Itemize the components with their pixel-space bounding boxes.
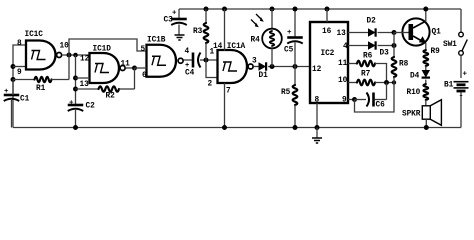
R4 label xyxy=(251,37,261,45)
gate IC1A xyxy=(218,50,254,83)
svg-text:R9: R9 xyxy=(431,48,441,56)
gate IC1B xyxy=(147,45,184,77)
svg-text:7: 7 xyxy=(226,88,231,96)
svg-text:D1: D1 xyxy=(259,72,269,80)
C1 label xyxy=(20,96,30,104)
label IC1C xyxy=(25,31,44,39)
pin 14 label xyxy=(213,43,223,51)
capacitor C4 xyxy=(193,53,201,68)
svg-text:C4: C4 xyxy=(185,70,195,78)
pin 11 label xyxy=(338,60,348,68)
wire top rail to SW1 xyxy=(460,9,462,32)
wire IC1B output xyxy=(184,59,193,61)
svg-text:9: 9 xyxy=(17,69,22,77)
R6 label xyxy=(363,53,373,61)
pin 8 label xyxy=(17,40,22,48)
SPKR label xyxy=(402,111,421,119)
svg-text:10: 10 xyxy=(60,42,70,50)
wire D4 to R10 xyxy=(425,80,427,84)
svg-text:4: 4 xyxy=(343,43,348,51)
capacitor C5 xyxy=(287,7,303,67)
wire Q1 emitter xyxy=(425,43,427,50)
wire IC1C output xyxy=(62,53,90,58)
svg-text:10: 10 xyxy=(338,77,348,85)
svg-text:D4: D4 xyxy=(410,73,420,81)
D1 label xyxy=(259,72,269,80)
pin 11 label xyxy=(121,61,131,69)
svg-text:2: 2 xyxy=(208,81,213,89)
pin 10 label xyxy=(338,77,348,85)
svg-text:4: 4 xyxy=(185,48,190,56)
pin 16 label xyxy=(322,28,332,36)
capacitor C1 xyxy=(4,80,20,128)
resistor R5 xyxy=(293,67,298,131)
R4 light arrows xyxy=(251,14,264,27)
C6 label xyxy=(376,102,386,110)
svg-text:R1: R1 xyxy=(36,85,46,93)
pin 5 label xyxy=(141,46,146,54)
pin 12 label xyxy=(312,66,322,74)
svg-text:12: 12 xyxy=(312,66,322,74)
wire pin13 xyxy=(73,76,90,81)
resistor R2 xyxy=(73,68,135,92)
resistor R8 xyxy=(392,57,397,83)
svg-text:R8: R8 xyxy=(399,61,409,69)
svg-text:+: + xyxy=(69,100,74,108)
pin 10 label xyxy=(60,42,70,50)
wire IC1A output xyxy=(254,66,259,68)
svg-text:5: 5 xyxy=(141,46,146,54)
svg-text:B1: B1 xyxy=(444,82,454,90)
wire base node vertical xyxy=(393,33,395,58)
R1 label xyxy=(36,85,46,93)
svg-text:IC1C: IC1C xyxy=(25,31,44,39)
wire D1 to IC2 pin12 xyxy=(268,64,310,69)
svg-text:Q1: Q1 xyxy=(432,28,442,36)
svg-text:R10: R10 xyxy=(407,89,421,97)
svg-text:14: 14 xyxy=(213,43,223,51)
wire left input rail xyxy=(13,45,26,128)
pin 2 label xyxy=(208,81,213,89)
wire D3 to node xyxy=(378,43,397,48)
wire pin9 hook xyxy=(355,83,395,113)
C2 label xyxy=(86,103,96,111)
speaker SPKR xyxy=(422,100,441,130)
diode D4 xyxy=(422,70,430,78)
svg-text:+: + xyxy=(172,10,177,18)
pin 12 label xyxy=(80,55,90,63)
switch SW1 xyxy=(459,32,468,55)
capacitor C3 xyxy=(171,9,187,35)
Q1 label xyxy=(432,28,442,36)
wire VCC top rail xyxy=(179,8,461,10)
pin 4 label xyxy=(343,43,348,51)
node IC1C inputs junction xyxy=(11,64,27,69)
label IC1B xyxy=(147,37,166,45)
wire ground bottom rail xyxy=(13,127,461,129)
battery minus xyxy=(459,91,464,101)
capacitor C2 xyxy=(68,100,84,131)
svg-text:D3: D3 xyxy=(380,50,390,58)
D4 label xyxy=(410,73,420,81)
R2 label xyxy=(106,93,116,101)
R9 label xyxy=(431,48,441,56)
node C1 tap xyxy=(11,77,16,82)
wire IC1D output xyxy=(126,66,138,71)
svg-text:3: 3 xyxy=(252,58,257,66)
svg-text:+: + xyxy=(463,71,468,79)
pin 8 label xyxy=(315,97,320,105)
pin 9 label xyxy=(17,69,22,77)
wire IC1C node down xyxy=(75,55,77,105)
pin 16 wire xyxy=(325,7,330,23)
photoresistor R4 xyxy=(262,7,282,67)
SW1 label xyxy=(443,41,457,49)
battery plus xyxy=(463,71,468,79)
gate IC1D xyxy=(90,53,126,83)
pin 6 label xyxy=(142,72,147,80)
pin 13 label xyxy=(337,30,347,38)
D2 label xyxy=(367,18,377,26)
resistor R3 xyxy=(204,7,209,61)
svg-text:C1: C1 xyxy=(20,96,30,104)
svg-text:IC1B: IC1B xyxy=(147,37,166,45)
pin 7 wire xyxy=(222,83,227,130)
svg-text:R4: R4 xyxy=(251,37,261,45)
D3 label xyxy=(380,50,390,58)
pin 8 wire xyxy=(315,103,320,130)
svg-text:R2: R2 xyxy=(106,93,116,101)
IC2 box xyxy=(310,22,348,103)
svg-text:C5: C5 xyxy=(284,47,294,55)
svg-text:+: + xyxy=(287,29,292,37)
wire battery to rail xyxy=(460,92,462,128)
resistor R1 xyxy=(13,77,69,82)
svg-text:C2: C2 xyxy=(86,103,96,111)
svg-text:13: 13 xyxy=(337,30,347,38)
plus mark C4 xyxy=(185,62,189,70)
capacitor C6 xyxy=(355,83,387,107)
pin 14 wire xyxy=(222,7,227,52)
R10 label xyxy=(407,89,421,97)
wire R1 to output node xyxy=(68,55,70,80)
R5 label xyxy=(281,89,291,97)
svg-text:C3: C3 xyxy=(164,17,174,25)
svg-text:11: 11 xyxy=(338,60,348,68)
svg-text:9: 9 xyxy=(342,97,347,105)
R7 label xyxy=(361,71,371,79)
resistor R10 xyxy=(424,84,429,106)
resistor R7 xyxy=(348,80,396,86)
transistor Q1 xyxy=(402,18,429,45)
IC2 label xyxy=(321,50,335,58)
pin 3 label xyxy=(252,58,257,66)
svg-text:16: 16 xyxy=(322,28,332,36)
svg-text:R3: R3 xyxy=(193,28,203,36)
wire Q1 base xyxy=(394,32,409,34)
svg-text:IC2: IC2 xyxy=(321,50,335,58)
gate IC1C xyxy=(26,41,62,70)
wire pin2 jog xyxy=(206,60,218,78)
R8 label xyxy=(399,61,409,69)
C5 label xyxy=(284,47,294,55)
C3 label xyxy=(164,17,174,25)
B1 label xyxy=(444,82,454,90)
svg-text:C6: C6 xyxy=(376,102,386,110)
svg-text:R5: R5 xyxy=(281,89,291,97)
svg-text:SW1: SW1 xyxy=(443,41,457,49)
resistor R9 xyxy=(424,50,429,70)
svg-text:R6: R6 xyxy=(363,53,373,61)
wire C4 to node xyxy=(200,58,218,63)
svg-text:8: 8 xyxy=(17,40,22,48)
wire SW1 to battery xyxy=(460,55,462,78)
wire pin9 xyxy=(348,97,357,102)
ground under IC2 pin8 xyxy=(312,128,322,144)
pin 1 label xyxy=(210,49,215,57)
wire feedback to pin5 xyxy=(69,39,147,55)
diode D1 xyxy=(259,62,267,70)
pin 4 label xyxy=(185,48,190,56)
label IC1D xyxy=(93,46,112,54)
wire pin6 xyxy=(135,67,147,69)
pin 13 label xyxy=(80,81,90,89)
diode D3 xyxy=(368,41,376,49)
diode D2 xyxy=(368,28,376,36)
wire pin4 to D3 xyxy=(348,45,368,47)
ground under C3 xyxy=(175,35,185,40)
wire pin13 to D2 xyxy=(348,32,368,34)
battery B1 xyxy=(454,82,469,91)
svg-text:13: 13 xyxy=(80,81,90,89)
svg-text:11: 11 xyxy=(121,61,131,69)
label IC1A xyxy=(227,43,246,51)
C4 label xyxy=(185,70,195,78)
resistor R6 xyxy=(348,61,387,83)
wire D2 to base node xyxy=(378,30,397,35)
svg-text:6: 6 xyxy=(142,72,147,80)
wire Q1 collector xyxy=(423,7,428,23)
svg-text:12: 12 xyxy=(80,55,90,63)
R3 label xyxy=(193,28,203,36)
svg-text:D2: D2 xyxy=(367,18,377,26)
svg-text:SPKR: SPKR xyxy=(402,111,421,119)
svg-text:R7: R7 xyxy=(361,71,371,79)
pin 7 label xyxy=(226,88,231,96)
pin 9 label xyxy=(342,97,347,105)
